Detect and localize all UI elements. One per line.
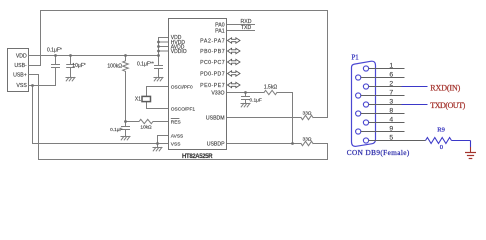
svg-text:R9: R9 (437, 126, 445, 133)
P1 pin lead wires (361, 69, 426, 141)
wire TXD blue (402, 104, 428, 106)
wire AVDD pin stub (159, 46, 169, 48)
wire ground lead red (470, 147, 472, 153)
wire AVSS stub (158, 136, 169, 144)
resistor R4 33ohm USBDP (301, 141, 313, 145)
wire PA1 TXD net (227, 30, 255, 32)
svg-text:9: 9 (389, 125, 393, 132)
capacitor C5 0.1uF V33O (242, 93, 250, 104)
resistor R9 0ohm (426, 138, 452, 144)
ground under C5 (241, 104, 250, 107)
svg-text:USBDM: USBDM (206, 115, 225, 121)
wire USB- net top loop (29, 11, 328, 118)
wire C1 top (55, 56, 57, 65)
svg-text:OSCO/PF1: OSCO/PF1 (171, 106, 196, 112)
svg-text:6: 6 (389, 71, 393, 78)
wire OSCO (147, 102, 169, 109)
svg-text:PC0-PC7: PC0-PC7 (200, 60, 225, 66)
svg-text:0.1μF*: 0.1μF* (47, 48, 62, 54)
svg-text:OSCI/PF0: OSCI/PF0 (171, 84, 193, 90)
wire C1 bottom to VSS (55, 68, 57, 86)
svg-text:HT82A525R: HT82A525R (182, 154, 213, 160)
svg-text:PE0-PE7: PE0-PE7 (200, 83, 225, 89)
junction dots (31, 41, 294, 145)
svg-text:8: 8 (389, 107, 393, 114)
svg-text:4: 4 (389, 116, 393, 123)
op IC U1 HT82A525R box (169, 19, 227, 150)
wire VSS bottom run to IC (33, 143, 169, 145)
svg-text:P1: P1 (352, 54, 359, 61)
svg-text:TXD(OUT): TXD(OUT) (430, 101, 465, 110)
svg-text:0.1μF**: 0.1μF** (137, 61, 154, 67)
connector P1 DB9 shell (352, 61, 376, 146)
svg-text:0: 0 (440, 144, 443, 151)
svg-text:PA2-PA7: PA2-PA7 (200, 38, 225, 44)
IC U1 right pin names (200, 22, 225, 147)
capacitor C1 0.1uF plates (52, 65, 60, 68)
P1 pin circles (356, 66, 369, 143)
wire VDD riser to IC pins (158, 38, 160, 66)
crystal X1 (142, 96, 151, 101)
ground under AVSS (153, 148, 162, 151)
svg-text:USB+: USB+ (13, 72, 27, 78)
wire USBDM to IC (227, 117, 302, 119)
wire USB+ net bottom loop (29, 75, 328, 160)
wire USBDP to IC (227, 143, 302, 145)
svg-text:7: 7 (389, 89, 393, 96)
svg-text:33Ω: 33Ω (303, 137, 312, 143)
svg-text:100kΩ: 100kΩ (107, 64, 122, 70)
wire R5 to USBDP riser (277, 93, 293, 144)
wire HVDD pin stub (159, 41, 169, 43)
svg-text:3: 3 (389, 98, 393, 105)
resistor R5 1.5k (264, 90, 277, 94)
svg-text:CON DB9(Female): CON DB9(Female) (347, 149, 410, 157)
capacitor C2 10uF (67, 56, 75, 78)
wire AVSS ground stub (157, 144, 159, 148)
labels left connector (13, 53, 27, 89)
svg-text:AVSS: AVSS (171, 133, 183, 139)
wire VSS riser (32, 86, 34, 144)
RES overline (171, 118, 180, 120)
ground under C4 (121, 137, 130, 140)
capacitor C3 0.1uF IC bypass (155, 66, 163, 78)
wire VDD pin stub (159, 37, 169, 39)
svg-text:PD0-PD7: PD0-PD7 (200, 71, 225, 77)
wire VDD rail (29, 55, 159, 57)
wire R9 to ground (452, 141, 471, 148)
svg-text:0.1μF: 0.1μF (110, 127, 122, 133)
svg-text:1.5kΩ: 1.5kΩ (264, 85, 277, 91)
resistor R3 33ohm USBDM (301, 115, 313, 119)
wire PA0 RXD net (227, 24, 255, 26)
capacitor C4 0.1uF reset (122, 122, 130, 137)
svg-text:0.1μF: 0.1μF (250, 97, 262, 103)
svg-text:PB0-PB7: PB0-PB7 (200, 49, 225, 55)
svg-text:RXD(IN): RXD(IN) (430, 83, 460, 92)
wire RXD blue (402, 86, 428, 88)
connector J1 USB box (8, 49, 29, 92)
svg-text:10μF*: 10μF* (72, 63, 85, 69)
svg-text:VDDIO: VDDIO (171, 49, 187, 55)
svg-text:X1: X1 (135, 97, 141, 103)
svg-text:10kΩ: 10kΩ (140, 125, 152, 131)
P1 pin numbers (389, 62, 393, 141)
svg-text:VDD: VDD (16, 53, 27, 59)
svg-text:V33O: V33O (211, 90, 224, 96)
svg-text:VSS: VSS (16, 83, 27, 89)
svg-text:USBDP: USBDP (207, 141, 225, 147)
svg-text:VSS: VSS (171, 141, 181, 147)
resistor R1 100k vertical (123, 56, 129, 122)
IC U1 left pin names (171, 35, 187, 55)
wire VDDIO pin stub (159, 50, 169, 52)
ground under C2 (66, 78, 75, 81)
svg-text:5: 5 (389, 134, 393, 141)
svg-text:RES: RES (171, 119, 181, 125)
svg-text:PA1: PA1 (215, 28, 225, 34)
wire VSS stub (29, 85, 56, 87)
wire V33O (227, 92, 265, 94)
svg-text:USB-: USB- (14, 63, 27, 69)
wire OSCI (147, 87, 169, 97)
svg-text:1: 1 (389, 62, 393, 69)
svg-text:33Ω: 33Ω (303, 111, 312, 117)
port arrows PA2-PA7 PB PC PD PE (228, 38, 241, 88)
ground under C3 (154, 78, 163, 81)
resistor R2 10k horizontal (126, 119, 169, 123)
svg-text:2: 2 (389, 80, 393, 87)
svg-text:TXD: TXD (241, 25, 252, 31)
earth ground symbol (465, 153, 476, 159)
